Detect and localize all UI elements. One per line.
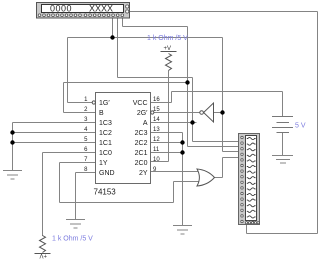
svg-text:16: 16: [153, 97, 160, 103]
wire battery top lead: [282, 92, 284, 117]
connector J1 bottom pads: [245, 222, 259, 224]
wire net-1G right vertical to inverter and DIP: [222, 38, 224, 152]
resistor R2 1k pull-up bottom: [40, 236, 46, 253]
wire 2G inverter out to pin15: [154, 112, 200, 114]
display U2 right pins: [126, 5, 129, 13]
wire battery bottom lead: [282, 133, 284, 156]
wire net-B to pin2: [64, 112, 96, 114]
svg-text:1 k Ohm /5 V: 1 k Ohm /5 V: [147, 35, 188, 42]
wire pin13 stub: [151, 132, 183, 134]
junction node inverter input: [220, 110, 224, 114]
wire OR output: [215, 177, 223, 179]
junction node pin11 ground: [180, 150, 184, 154]
svg-text:B: B: [99, 110, 104, 117]
wire pin10 stub: [151, 161, 169, 163]
wire OR output up: [222, 158, 224, 178]
svg-text:+V: +V: [164, 46, 172, 52]
junction node pin5 ground: [10, 140, 14, 144]
ground GND3 right of chip: [173, 226, 192, 235]
wire VCC up: [171, 92, 173, 103]
wire net-B into DIP row2: [188, 146, 239, 148]
wire 1Y bottom horizontal: [60, 202, 174, 204]
wire 1Y down: [59, 163, 61, 203]
svg-text:2C2: 2C2: [135, 140, 148, 147]
svg-text:15: 15: [153, 107, 160, 113]
wire net-A vertical: [192, 78, 194, 142]
svg-text:74153: 74153: [94, 188, 117, 197]
svg-text:0000: 0000: [50, 3, 72, 13]
wire VCC pin16 stub: [151, 102, 172, 104]
wire pin3 stub: [13, 122, 96, 124]
svg-text:VCC: VCC: [133, 100, 148, 107]
pin 1 bubble: [92, 101, 95, 104]
ground GND2 pin8: [66, 220, 85, 229]
op-amp U3 inverter: [200, 103, 214, 122]
junction node pin4 ground: [10, 130, 14, 134]
svg-text:1 k Ohm /5 V: 1 k Ohm /5 V: [52, 236, 93, 243]
svg-text:10: 10: [153, 157, 160, 163]
svg-text:12: 12: [153, 137, 160, 143]
wire net-1G horizontal main: [68, 37, 223, 39]
svg-text:5 V: 5 V: [295, 123, 306, 130]
connector J1 left pin circles: [241, 136, 243, 222]
wire left ground vertical: [12, 123, 14, 171]
svg-text:A: A: [143, 120, 148, 127]
connector J1 switch squiggles: [247, 137, 256, 223]
wire R2 top lead: [42, 153, 44, 237]
wire pin6 stub: [43, 152, 96, 154]
svg-text:9: 9: [153, 167, 157, 173]
wire into DIP row4: [223, 157, 239, 159]
power +V bottom rotated: [35, 252, 51, 258]
connector J1 dip switch body: [239, 134, 260, 225]
wire pin5 stub: [13, 142, 96, 144]
display U2 bottom pins group2: [84, 14, 123, 17]
wire net-1G into DIP row3: [223, 151, 239, 153]
wire frame right vertical: [317, 12, 319, 234]
wire net-1G display pin down: [112, 16, 114, 38]
ic U1 74153 body: [96, 93, 151, 184]
wire DIP bottom lead: [246, 225, 248, 234]
wire pin4 stub: [13, 132, 96, 134]
wire pin13-ground vertical: [182, 133, 184, 226]
ic U1 pin numbers right: [153, 97, 160, 173]
wire net-A into DIP row1: [193, 141, 239, 143]
wire net-1G to pin1: [68, 102, 93, 104]
wire net-B mid vertical: [187, 27, 189, 147]
wire frame bottom: [247, 233, 318, 235]
wire pin14 stub: [151, 122, 197, 124]
display U2 bottom pins group1: [38, 14, 81, 17]
svg-text:1G′: 1G′: [99, 100, 110, 107]
svg-text:XXXX: XXXX: [89, 3, 113, 13]
wire pin12 stub: [151, 142, 185, 144]
wire VCC to battery: [172, 91, 283, 93]
svg-text:1C2: 1C2: [99, 130, 112, 137]
wire 1Y up to OR input: [173, 182, 175, 203]
wire OR bottom input: [174, 181, 200, 183]
svg-text:1C1: 1C1: [99, 140, 112, 147]
wire pin8 ground vertical: [75, 173, 77, 220]
wire net-A display pin down: [117, 16, 119, 78]
wire net-B display pin down: [122, 16, 124, 27]
wire net-B top horizontal: [123, 26, 188, 28]
svg-text:1C3: 1C3: [99, 120, 112, 127]
junction node A pin14: [190, 120, 194, 124]
or-gate U4: [197, 169, 215, 186]
wire pin9 2Y to OR top input: [151, 171, 200, 173]
wire pin11 stub: [151, 152, 185, 154]
svg-text:2C3: 2C3: [135, 130, 148, 137]
wire inverter input side: [214, 112, 223, 114]
svg-text:11: 11: [153, 147, 160, 153]
resistor R1 1k pull-up: [166, 54, 172, 71]
pin 15 bubble: [151, 111, 154, 114]
junction node B: [185, 80, 189, 84]
power +V top: [161, 46, 177, 52]
wire display right to frame top: [129, 11, 318, 13]
ground GND1 left: [3, 171, 22, 180]
wire net-B horizontal to chip: [64, 82, 188, 84]
svg-text:1Y: 1Y: [99, 160, 108, 167]
ic U1 pin names left: [99, 100, 115, 177]
svg-text:14: 14: [153, 117, 160, 123]
svg-text:+V: +V: [39, 252, 47, 258]
ground GND4 battery: [272, 156, 293, 164]
svg-text:1C0: 1C0: [99, 150, 112, 157]
ic U1 pin names right: [133, 100, 148, 177]
junction node pin12 ground: [180, 140, 184, 144]
wire pin8 GND stub: [76, 172, 96, 174]
display U2 hex indicator: [37, 3, 130, 19]
wire R1 bottom lead to pin10: [168, 71, 170, 162]
svg-text:2Y: 2Y: [139, 170, 148, 177]
svg-text:2G′: 2G′: [137, 110, 148, 117]
wire net-1G left vertical: [67, 38, 69, 103]
wire net-A horizontal: [118, 77, 193, 79]
wire net-B left vertical: [63, 83, 65, 113]
svg-text:13: 13: [153, 127, 160, 133]
svg-text:2C0: 2C0: [135, 160, 148, 167]
junction node display-1G: [110, 35, 114, 39]
svg-text:GND: GND: [99, 170, 115, 177]
ic U1 pin numbers left: [84, 97, 88, 173]
battery V1 5V: [272, 117, 293, 133]
wire pin7 stub: [60, 162, 96, 164]
svg-text:2C1: 2C1: [135, 150, 148, 157]
